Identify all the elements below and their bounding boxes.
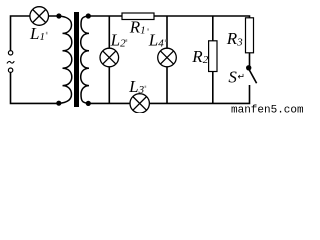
svg-text:L3: L3 [128,77,144,96]
svg-text:S: S [228,68,237,87]
svg-text:R3: R3 [226,29,243,49]
svg-text:R1: R1 [129,18,146,37]
svg-text:manfen5.com: manfen5.com [231,104,303,113]
svg-text:↵: ↵ [238,72,246,82]
svg-text:L4: L4 [148,30,164,49]
svg-text:L1: L1 [29,24,45,43]
svg-text:R2: R2 [191,47,208,66]
svg-text:L2: L2 [110,30,126,49]
